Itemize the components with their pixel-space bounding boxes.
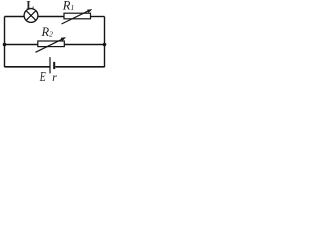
svg-text:E: E — [39, 69, 46, 82]
resistor R1 — [62, 9, 93, 24]
battery E r — [50, 57, 54, 73]
wire bottom-left — [5, 66, 50, 68]
lamp L — [24, 9, 38, 23]
wire top-right — [91, 16, 105, 18]
svg-text:L: L — [26, 0, 34, 11]
wire middle-left — [5, 44, 38, 46]
wire bottom-right — [55, 66, 104, 68]
node left junction — [3, 43, 7, 47]
wire middle-right — [64, 44, 104, 46]
wire left vertical — [4, 17, 6, 68]
node right junction — [103, 43, 107, 47]
wire top-left — [5, 16, 25, 18]
wire top-middle — [38, 16, 64, 18]
svg-text:r: r — [52, 70, 57, 82]
wire right vertical — [104, 17, 106, 68]
resistor R2 — [36, 37, 67, 52]
